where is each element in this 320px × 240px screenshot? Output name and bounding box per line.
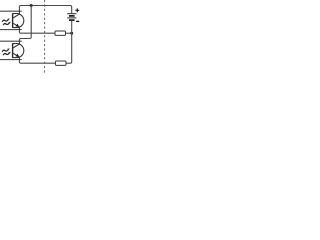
wire U1 emitter to output rail xyxy=(19,30,55,34)
resistor R1 xyxy=(55,31,66,35)
node B junction dot xyxy=(70,32,73,35)
wire U2 emitter to bottom rail xyxy=(19,60,55,64)
phototransistor Q1 envelope xyxy=(13,14,24,28)
transistor Q1 emitter with arrow xyxy=(13,23,20,29)
transistor Q1 collector xyxy=(13,11,20,18)
transistor Q2 emitter with arrow xyxy=(13,53,20,59)
photodetector U2 light arrows xyxy=(2,49,10,52)
node A junction dot xyxy=(30,4,33,7)
battery - label xyxy=(76,20,79,22)
transistor Q2 collector xyxy=(13,41,20,48)
battery + label xyxy=(75,8,79,12)
wire top rail from U1 collector to battery + xyxy=(19,6,71,14)
wire from node A down to U2 collector xyxy=(19,6,31,42)
resistor R2 xyxy=(56,61,67,65)
phototransistor Q2 envelope xyxy=(13,44,24,58)
dashed enclosure boundary line xyxy=(44,0,46,73)
photodetector U1 package box xyxy=(0,11,22,29)
photodetector U2 package box xyxy=(0,41,22,59)
wire battery minus down to node B and bottom rail xyxy=(66,21,72,63)
battery G1 xyxy=(67,14,76,20)
wire R1 to battery minus node xyxy=(66,32,72,34)
photodetector U1 light arrows xyxy=(2,19,10,22)
